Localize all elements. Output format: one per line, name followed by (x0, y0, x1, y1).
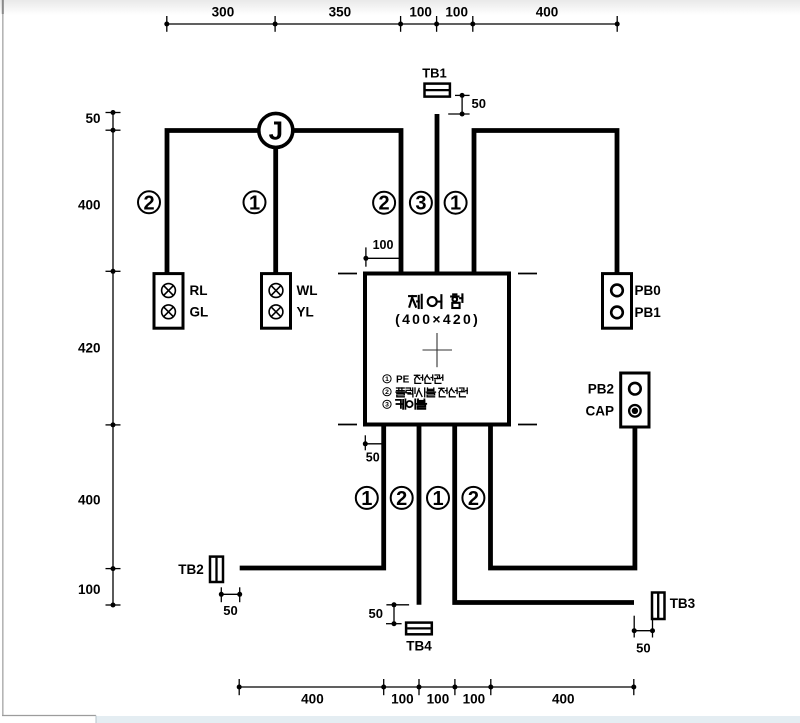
svg-text:TB2: TB2 (178, 562, 204, 577)
svg-text:TB4: TB4 (406, 639, 432, 654)
svg-text:400: 400 (552, 692, 575, 707)
svg-text:100: 100 (463, 692, 486, 707)
svg-text:2: 2 (468, 488, 479, 510)
svg-text:(400×420): (400×420) (395, 311, 480, 327)
terminal TB4 (406, 623, 432, 635)
dim 50 at TB4 (393, 605, 395, 624)
svg-text:TB3: TB3 (670, 596, 696, 611)
centre cross (423, 349, 453, 351)
svg-text:J: J (269, 116, 283, 146)
bottom dimension line (239, 686, 634, 688)
wire: J-box drop to WL/YL (273, 131, 278, 274)
svg-text:YL: YL (297, 305, 314, 320)
svg-text:400: 400 (78, 198, 101, 213)
svg-text:100: 100 (445, 5, 468, 20)
svg-text:400: 400 (536, 5, 559, 20)
title 제 어 함 (409, 295, 416, 297)
svg-text:WL: WL (297, 283, 318, 298)
junction box J (259, 113, 293, 147)
svg-text:1: 1 (385, 376, 389, 383)
wire number 2 (left lamp) (138, 191, 160, 213)
wire number 1 (WL/YL) (244, 191, 266, 213)
wire: right top run to PB0/PB1 (474, 131, 617, 274)
wire number 2 (PB2) (462, 487, 484, 509)
svg-text:350: 350 (329, 5, 352, 20)
wire: TB1 cable drop (435, 114, 440, 274)
svg-text:400: 400 (78, 492, 101, 507)
wire number 1 (TB3) (427, 487, 449, 509)
svg-text:50: 50 (85, 111, 100, 126)
dim 50 at TB2 (220, 587, 222, 602)
wire: box to TB2 (240, 425, 384, 569)
svg-text:2: 2 (379, 193, 390, 215)
dim 50 at TB1 (461, 95, 463, 114)
push button box PB0/PB1 (603, 274, 632, 329)
svg-text:300: 300 (212, 5, 235, 20)
svg-text:3: 3 (415, 193, 426, 215)
svg-text:2: 2 (396, 488, 407, 510)
svg-text:PB1: PB1 (635, 305, 662, 320)
svg-text:100: 100 (409, 5, 432, 20)
bottom status strip (96, 716, 800, 723)
svg-text:CAP: CAP (585, 404, 614, 419)
svg-text:50: 50 (472, 96, 486, 111)
top dimension line (167, 23, 617, 25)
svg-text:PB0: PB0 (635, 283, 661, 298)
svg-text:50: 50 (366, 451, 380, 465)
svg-text:100: 100 (427, 692, 450, 707)
dim 50 (box edge to wire 1) (364, 435, 366, 450)
svg-text:PB2: PB2 (588, 381, 614, 396)
svg-text:2: 2 (385, 389, 389, 396)
svg-text:50: 50 (223, 603, 237, 618)
svg-text:50: 50 (369, 606, 383, 621)
svg-text:420: 420 (78, 340, 101, 355)
page left edge (2, 0, 4, 716)
svg-text:1: 1 (450, 193, 461, 215)
svg-text:1: 1 (432, 488, 443, 510)
wire: box to TB3 (455, 425, 634, 603)
dashed extensions (338, 273, 357, 275)
wire number 1 (TB2) (356, 487, 378, 509)
legend line 2: 플렉시블 전선관 (383, 388, 391, 396)
terminal TB3 (652, 593, 665, 620)
lamp box WL/YL (262, 274, 291, 329)
svg-text:PE: PE (396, 374, 410, 385)
svg-text:1: 1 (249, 192, 260, 214)
svg-text:100: 100 (373, 238, 394, 252)
left dimension line (112, 113, 114, 606)
legend line 1: PE 전선관 (383, 375, 391, 383)
svg-text:100: 100 (391, 692, 414, 707)
svg-text:GL: GL (190, 305, 209, 320)
svg-text:100: 100 (78, 582, 101, 597)
legend line 3: 케이블 (bold) (383, 400, 391, 408)
svg-text:3: 3 (385, 402, 389, 409)
wire number 3 (TB1 cable) (410, 192, 432, 214)
wire: box to TB4 (417, 425, 422, 605)
wire: left lamp branch + top run to node 2 (167, 131, 401, 274)
control box 제어함 (365, 274, 509, 425)
svg-text:RL: RL (190, 283, 208, 298)
wire number 2 (node) (373, 192, 395, 214)
svg-text:TB1: TB1 (422, 66, 447, 81)
svg-text:1: 1 (361, 488, 372, 510)
push button box PB2/CAP (621, 373, 649, 427)
wire number 2 (TB4) (391, 487, 413, 509)
wire: box to PB2/CAP (U route) (491, 425, 635, 569)
svg-text:2: 2 (143, 192, 154, 214)
lamp box RL/GL (154, 274, 183, 329)
dim 50 at TB3 (633, 616, 635, 638)
svg-text:50: 50 (636, 641, 650, 656)
svg-text:400: 400 (301, 692, 324, 707)
wire number 1 (right) (445, 192, 467, 214)
